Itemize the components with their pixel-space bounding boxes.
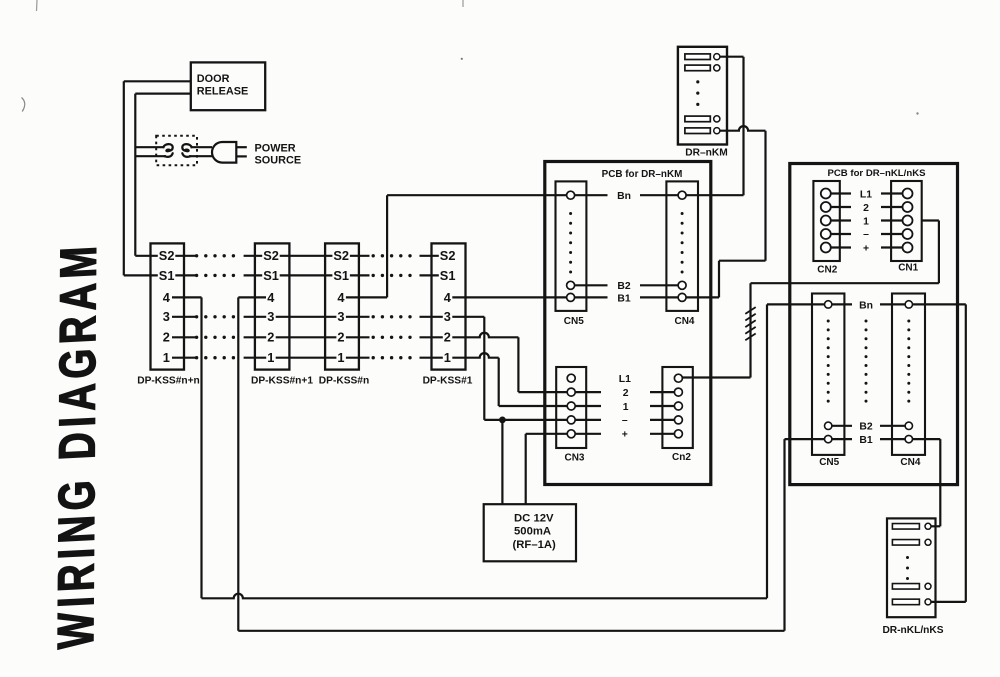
svg-text:B2: B2: [617, 281, 631, 292]
svg-text:CN1: CN1: [898, 263, 918, 274]
svg-text:PCB for DR–nKM: PCB for DR–nKM: [602, 169, 683, 180]
svg-text:2: 2: [337, 330, 344, 345]
svg-text:CN3: CN3: [564, 452, 584, 463]
svg-text:DOOR: DOOR: [197, 73, 230, 85]
svg-text:CN5: CN5: [819, 457, 839, 468]
svg-text:DP-KSS#n+n: DP-KSS#n+n: [137, 375, 200, 386]
svg-text:CN2: CN2: [817, 265, 837, 276]
svg-text:DR-nKL/nKS: DR-nKL/nKS: [882, 625, 943, 636]
svg-text:S1: S1: [263, 268, 279, 283]
svg-text:B1: B1: [859, 435, 873, 446]
svg-text:2: 2: [863, 203, 869, 214]
svg-text:S1: S1: [333, 268, 349, 283]
svg-text:CN4: CN4: [900, 457, 920, 468]
svg-text:1: 1: [444, 350, 451, 365]
svg-text:PCB for DR–nKL/nKS: PCB for DR–nKL/nKS: [827, 168, 926, 179]
svg-text:S2: S2: [159, 248, 175, 263]
svg-text:3: 3: [163, 309, 170, 324]
svg-text:SOURCE: SOURCE: [255, 155, 302, 167]
svg-text:4: 4: [163, 290, 171, 305]
svg-text:3: 3: [337, 309, 344, 324]
svg-text:1: 1: [163, 350, 170, 365]
svg-text:+: +: [622, 430, 628, 441]
svg-text:DP-KSS#n: DP-KSS#n: [319, 375, 369, 386]
svg-text:4: 4: [444, 290, 452, 305]
svg-text:1: 1: [267, 350, 274, 365]
svg-text:1: 1: [863, 217, 869, 228]
svg-text:2: 2: [163, 330, 170, 345]
svg-text:CN5: CN5: [564, 316, 584, 327]
svg-text:S2: S2: [333, 248, 349, 263]
svg-text:2: 2: [623, 388, 629, 399]
svg-text:–: –: [863, 229, 869, 240]
svg-text:B2: B2: [859, 422, 873, 433]
svg-text:L1: L1: [860, 190, 872, 201]
svg-text:2: 2: [267, 330, 274, 345]
svg-text:DC 12V: DC 12V: [514, 513, 554, 525]
svg-text:(RF–1A): (RF–1A): [513, 539, 557, 551]
svg-text:4: 4: [337, 290, 345, 305]
svg-text:RELEASE: RELEASE: [197, 85, 248, 97]
svg-text:POWER: POWER: [255, 143, 296, 155]
svg-text:DP-KSS#1: DP-KSS#1: [423, 375, 473, 386]
svg-text:500mA: 500mA: [514, 526, 551, 538]
svg-text:S1: S1: [440, 268, 456, 283]
svg-text:S2: S2: [263, 248, 279, 263]
svg-text:CN4: CN4: [674, 316, 694, 327]
svg-text:L1: L1: [619, 374, 631, 385]
svg-text:–: –: [622, 415, 628, 426]
svg-text:S1: S1: [159, 268, 175, 283]
svg-text:DR–nKM: DR–nKM: [685, 148, 727, 159]
svg-text:4: 4: [267, 290, 275, 305]
svg-text:3: 3: [444, 309, 451, 324]
svg-text:Bn: Bn: [617, 191, 631, 202]
svg-text:Bn: Bn: [859, 300, 873, 311]
svg-text:Cn2: Cn2: [672, 452, 691, 463]
svg-text:1: 1: [337, 350, 344, 365]
svg-text:DP-KSS#n+1: DP-KSS#n+1: [251, 375, 313, 386]
svg-text:S2: S2: [440, 248, 456, 263]
svg-text:+: +: [863, 244, 869, 255]
svg-text:2: 2: [444, 330, 451, 345]
svg-text:B1: B1: [617, 293, 631, 304]
svg-text:3: 3: [267, 309, 274, 324]
svg-text:1: 1: [623, 402, 629, 413]
